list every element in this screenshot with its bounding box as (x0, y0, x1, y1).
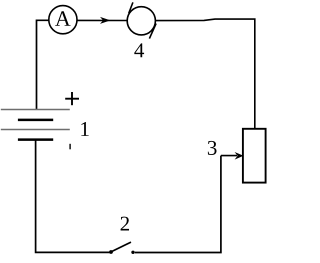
ammeter A (49, 6, 77, 34)
label 1 (81, 122, 88, 136)
plus sign (65, 92, 79, 105)
label 4 (134, 43, 144, 57)
minus sign (69, 144, 71, 150)
rheostat 3 (243, 129, 266, 183)
wire (37, 20, 49, 109)
wire (36, 140, 110, 253)
label 3 (208, 141, 217, 155)
wire (77, 19, 127, 21)
label 2 (121, 217, 129, 231)
wire (135, 156, 221, 253)
switch 2 (109, 242, 135, 254)
rheostat slider arrow (221, 152, 244, 160)
lamp 4 (127, 2, 156, 38)
wire (155, 19, 254, 129)
current direction arrow (100, 17, 110, 24)
battery 1 (1, 110, 70, 140)
